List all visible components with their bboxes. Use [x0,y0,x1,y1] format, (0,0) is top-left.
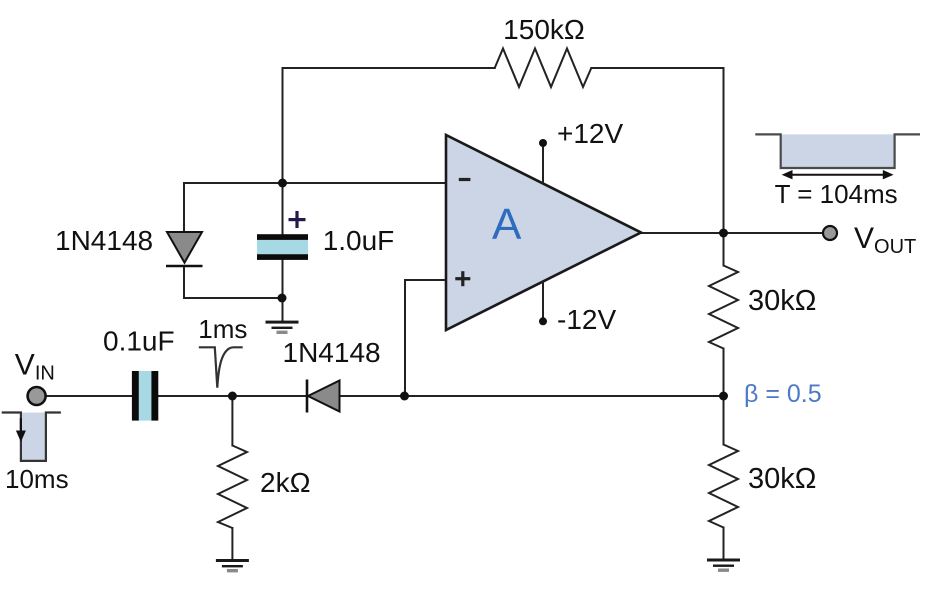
svg-text:10ms: 10ms [5,464,69,494]
svg-text:0.1uF: 0.1uF [103,326,175,357]
svg-text:+12V: +12V [557,118,623,149]
svg-text:30kΩ: 30kΩ [748,463,816,495]
svg-text:1N4148: 1N4148 [55,225,153,256]
svg-text:β = 0.5: β = 0.5 [744,380,822,408]
svg-text:1ms: 1ms [198,314,247,344]
svg-text:2kΩ: 2kΩ [260,467,311,498]
svg-text:1N4148: 1N4148 [283,337,381,368]
svg-text:30kΩ: 30kΩ [748,285,816,317]
svg-text:-12V: -12V [557,304,616,335]
svg-text:150kΩ: 150kΩ [503,14,585,45]
svg-text:1.0uF: 1.0uF [323,225,395,256]
svg-text:A: A [492,200,522,249]
svg-text:T = 104ms: T = 104ms [775,179,898,209]
